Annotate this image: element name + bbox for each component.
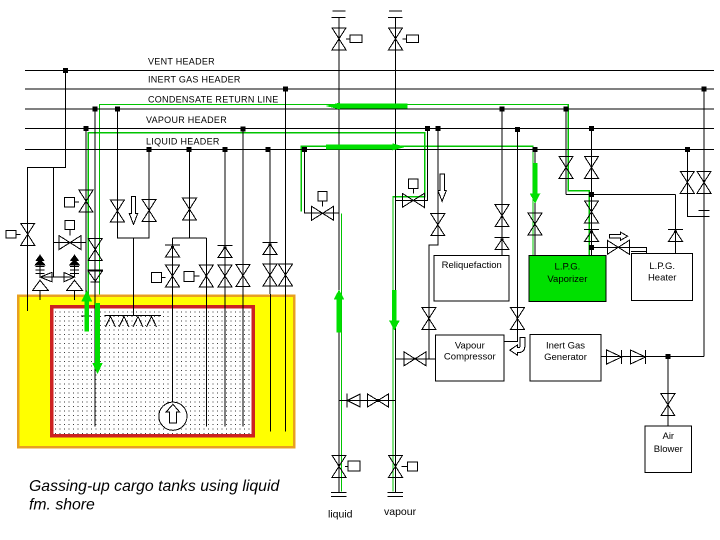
svg-text:L.P.G.: L.P.G. [649,261,675,272]
svg-text:Inert Gas: Inert Gas [546,340,585,351]
svg-text:Generator: Generator [544,352,587,363]
svg-text:L.P.G.: L.P.G. [555,261,581,272]
svg-text:fm. shore: fm. shore [29,497,95,514]
svg-text:Air: Air [662,431,674,442]
svg-text:CONDENSATE RETURN LINE: CONDENSATE RETURN LINE [148,95,279,105]
svg-text:Blower: Blower [654,444,683,455]
svg-text:Vapour: Vapour [455,340,485,351]
svg-text:Reliquefaction: Reliquefaction [442,260,502,271]
svg-text:Vaporizer: Vaporizer [547,274,587,285]
svg-text:INERT GAS HEADER: INERT GAS HEADER [148,75,241,85]
svg-text:Heater: Heater [648,273,677,284]
svg-text:liquid: liquid [328,509,353,521]
svg-text:vapour: vapour [384,506,417,518]
svg-text:Gassing-up cargo tanks using l: Gassing-up cargo tanks using liquid [29,478,280,495]
svg-text:VENT HEADER: VENT HEADER [148,56,215,66]
svg-text:VAPOUR HEADER: VAPOUR HEADER [146,115,227,125]
svg-text:LIQUID HEADER: LIQUID HEADER [146,137,220,147]
svg-text:Compressor: Compressor [444,352,496,363]
